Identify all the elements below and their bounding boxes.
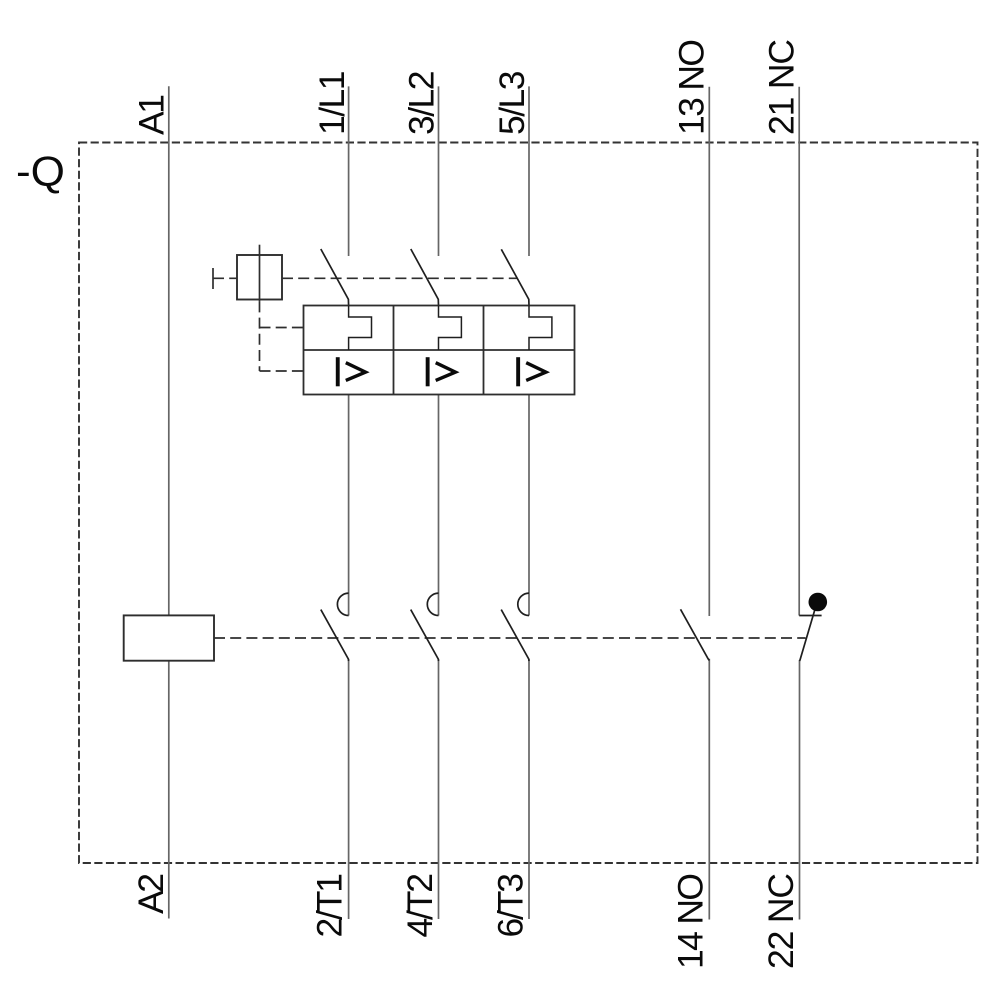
main contact latch arc pole2 <box>427 593 438 615</box>
dashed branch to magnetic row <box>260 370 304 372</box>
svg-text:1/L1: 1/L1 <box>312 71 352 136</box>
wire pole1 mid <box>348 395 350 616</box>
coil / operating-mechanism box <box>124 615 214 660</box>
aux NO contact blade <box>681 609 710 660</box>
manual operator stem <box>259 245 261 302</box>
main contact latch arc pole3 <box>518 593 529 615</box>
svg-text:-Q: -Q <box>16 148 65 195</box>
svg-text:A1: A1 <box>131 94 171 135</box>
manual operator square <box>237 255 282 300</box>
dashed link tick to square <box>213 277 237 279</box>
wire 1/L1 <box>348 86 350 256</box>
thermal overload element pole3 <box>529 306 552 351</box>
wire A1 top <box>168 86 170 615</box>
svg-text:3/L2: 3/L2 <box>402 71 442 136</box>
svg-text:22 NC: 22 NC <box>761 873 801 969</box>
wire 5/L3 <box>528 86 530 256</box>
mechanical link dashed (mechanism to contacts) <box>214 637 806 639</box>
aux NC contact blade <box>800 609 816 662</box>
thermal overload element pole1 <box>349 306 372 351</box>
svg-text:14 NO: 14 NO <box>671 873 711 969</box>
svg-text:13 NO: 13 NO <box>672 39 712 135</box>
main contact blade pole1 <box>321 610 349 661</box>
main contact blade pole3 <box>501 610 529 661</box>
wire pole3 mid <box>528 395 530 616</box>
manual operator left tick <box>212 268 214 289</box>
svg-text:21 NC: 21 NC <box>762 39 802 135</box>
svg-text:6/T3: 6/T3 <box>491 873 531 938</box>
magnetic overcurrent trip I> pole1 <box>336 357 366 386</box>
aux NC stop bar <box>799 615 821 617</box>
svg-text:2/T1: 2/T1 <box>309 873 349 938</box>
magnetic overcurrent trip I> pole2 <box>426 357 456 386</box>
wire 22 NC bottom <box>799 660 801 919</box>
wire 13 NO top <box>708 87 710 616</box>
wire 4/T2 bottom <box>438 659 440 919</box>
wire 2/T1 bottom <box>348 659 350 919</box>
wire 21 NC top <box>798 87 800 616</box>
wire 6/T3 bottom <box>528 659 530 919</box>
dashed link square down <box>259 301 261 371</box>
wire 14 NO bottom <box>708 659 710 920</box>
thermal overload element pole2 <box>439 306 462 351</box>
dashed branch to thermal row <box>260 327 304 329</box>
wire pole2 mid <box>438 395 440 616</box>
trip unit box <box>304 306 575 395</box>
dashed link square to breaker blades <box>282 277 517 279</box>
main contact blade pole2 <box>411 610 439 661</box>
svg-text:5/L3: 5/L3 <box>492 71 532 136</box>
breaker blade pole2 <box>411 249 439 306</box>
breaker blade pole3 <box>501 249 529 305</box>
magnetic overcurrent trip I> pole3 <box>516 357 546 386</box>
svg-text:A2: A2 <box>131 873 171 914</box>
aux NC dot <box>809 593 828 612</box>
svg-text:4/T2: 4/T2 <box>400 873 440 938</box>
device outline dashed border <box>79 143 978 864</box>
main contact latch arc pole1 <box>337 593 348 615</box>
breaker blade pole1 <box>321 249 349 306</box>
wire 3/L2 <box>438 86 440 256</box>
wire A2 bottom <box>168 661 170 919</box>
